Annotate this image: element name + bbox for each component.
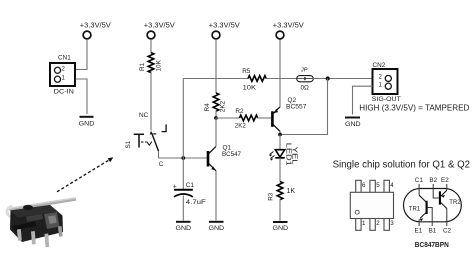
wire P3 to R4 [215,39,217,93]
wire R5 to JP [264,78,297,80]
svg-text:R1: R1 [139,62,146,71]
wire P2 to R1 [150,39,152,53]
stadium outline [404,189,462,222]
svg-text:3: 3 [390,220,394,227]
connector CN2 [372,62,401,103]
resistor R5 [242,68,266,91]
svg-text:+3.3V/5V: +3.3V/5V [273,23,304,30]
node SIG-OUT junction [326,76,330,80]
LED1 [269,143,297,166]
transistor Q1 BC547 [208,144,241,171]
svg-text:1: 1 [362,220,366,227]
svg-text:GND: GND [176,225,192,232]
svg-text:E2: E2 [441,177,449,184]
svg-text:+3.3V/5V: +3.3V/5V [80,23,111,30]
svg-text:2K2: 2K2 [220,100,227,112]
SOT-23-6 package [350,180,393,230]
resistor R3 [267,182,295,201]
power +3.3V/5V P2 [144,23,175,39]
wire C1 to GND [182,196,184,221]
wire node to LED1 [279,135,281,151]
svg-text:+3.3V/5V: +3.3V/5V [144,23,175,30]
svg-text:BC557: BC557 [286,103,307,110]
svg-text:C: C [159,161,164,168]
svg-text:2K2: 2K2 [235,123,247,130]
wire CN2 pin1 to GND [353,86,373,114]
wire Q1 emitter to GND [215,171,217,221]
common stub [158,151,160,158]
svg-text:Single chip solution for Q1 &: Single chip solution for Q1 & Q2 [333,160,471,171]
ground under Q1 [209,222,225,232]
dual transistor BC847BPN diagram [404,184,462,226]
svg-text:1K: 1K [287,188,296,195]
transistor TR2 [439,191,441,204]
capacitor C1 [173,182,206,206]
power +3.3V/5V P4 [273,23,304,39]
node Q2 collector [278,133,282,137]
svg-text:R5: R5 [242,68,251,75]
svg-text:LED1: LED1 [284,143,291,166]
wire CN1 pin1 to GND [76,79,88,114]
svg-text:B1: B1 [429,228,437,235]
svg-text:6: 6 [362,182,366,189]
wire R3 to GND [279,199,281,221]
svg-text:JP: JP [300,68,308,74]
transistor TR1 [426,201,428,214]
dashed arrow photo to S1 [57,157,113,192]
wire node down to Q1 collector [215,118,217,146]
microswitch photo [7,197,76,247]
lever with arrow [152,134,159,151]
wire switch C to Q1 base [159,157,207,159]
wire R4 to node [215,111,217,119]
wire R2 to Q2 base [257,117,272,119]
svg-text:E1: E1 [415,228,423,235]
svg-text:GND: GND [273,225,289,232]
svg-text:C1: C1 [415,177,424,184]
svg-text:TR2: TR2 [449,200,461,206]
svg-text:HIGH (3.3V/5V) = TAMPERED: HIGH (3.3V/5V) = TAMPERED [359,103,469,112]
wire Q2 collector to node [279,131,281,135]
svg-text:R2: R2 [235,108,244,115]
svg-text:B2: B2 [429,177,437,184]
node R4/R2/Q1 collector [214,116,218,120]
power +3.3V/5V P3 [209,23,240,39]
transistor Q2 BC557 [272,97,307,132]
power +3.3V/5V P1 [80,23,111,39]
wire junction to C1 [182,158,184,189]
resistor R1 [139,53,163,73]
svg-text:R4: R4 [204,103,211,112]
svg-text:GND: GND [209,225,225,232]
svg-text:GND: GND [79,121,95,128]
wire JP to CN2 [313,78,373,80]
wire feedback to Q2 collector [280,79,328,135]
svg-text:NC: NC [139,112,149,119]
svg-text:10K: 10K [243,85,257,92]
svg-text:C1: C1 [186,182,195,189]
svg-text:+3.3V/5V: +3.3V/5V [209,23,240,30]
switch S1 [125,112,166,168]
NO contact [162,124,167,131]
svg-text:10K: 10K [156,59,163,71]
svg-text:S1: S1 [125,140,132,148]
ground under R3 [273,222,289,232]
svg-text:DC-IN: DC-IN [54,89,74,96]
wire node to R2 [216,117,240,119]
svg-text:4: 4 [390,182,394,189]
svg-text:GND: GND [345,121,361,128]
switch body [10,205,63,242]
svg-text:CN1: CN1 [58,55,71,62]
svg-text:YEL: YEL [290,147,297,165]
resistor R2 [235,108,258,129]
wire R1 to switch NC [150,71,152,131]
svg-text:C2: C2 [443,228,452,235]
jumper JP [297,68,314,92]
hinge curl [7,207,13,217]
lever arm [9,197,77,211]
ground under C1 [176,222,192,232]
svg-text:5: 5 [376,182,380,189]
wire LED1 to R3 [279,158,281,182]
svg-text:4.7uF: 4.7uF [186,199,206,206]
ground under CN1 [79,117,95,128]
wire Q2 emitter to P4 [279,39,281,107]
wire Q1 base net up and right to R5 [183,79,248,159]
svg-text:BC547: BC547 [222,151,241,158]
pins [17,229,22,241]
svg-text:TR1: TR1 [409,206,421,212]
node junction at C1 top [181,156,185,160]
resistor R4 [204,93,227,112]
connector CN1 [50,55,75,96]
svg-text:2: 2 [376,220,380,227]
ground under CN2 [345,118,361,128]
wire P1 to CN1 pin2 [76,39,88,69]
svg-text:R3: R3 [267,192,274,201]
actuator [134,133,144,135]
svg-text:0Ω: 0Ω [301,85,310,92]
svg-text:SIG-OUT: SIG-OUT [372,96,401,103]
svg-text:CN2: CN2 [373,62,386,69]
svg-text:BC847BPN: BC847BPN [415,240,449,249]
